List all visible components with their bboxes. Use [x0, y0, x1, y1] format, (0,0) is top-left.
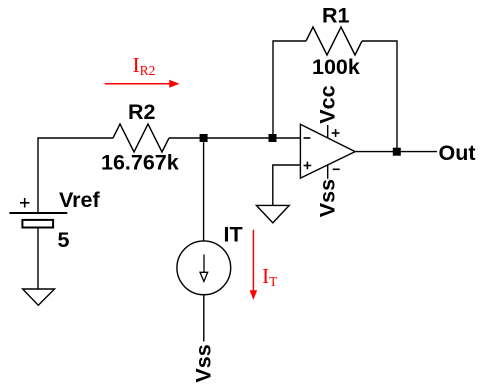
current arrow IT (red)	[250, 230, 258, 300]
node output junction	[393, 148, 401, 156]
op-amp Vss pin stub	[327, 165, 329, 179]
op-amp Vcc pin stub	[327, 125, 329, 139]
wire node to current source	[203, 142, 205, 242]
op-amp U1	[300, 124, 355, 178]
svg-text:IT: IT	[262, 264, 278, 289]
op-amp inverting input mark	[304, 137, 311, 139]
ground (Vref)	[23, 289, 55, 305]
svg-text:5: 5	[58, 228, 70, 252]
ground (op-amp non-inverting input)	[256, 205, 289, 222]
node junction R2/IT	[200, 134, 208, 142]
wire output	[355, 151, 437, 153]
op-amp Vss minus mark	[333, 168, 340, 170]
svg-text:Vref: Vref	[59, 188, 100, 212]
wire Vref to ground	[37, 228, 39, 290]
wire feedback right	[362, 41, 397, 152]
wire main (Vref corner to R2)	[38, 138, 113, 213]
voltage source Vref	[9, 198, 67, 228]
svg-text:100k: 100k	[312, 55, 360, 79]
wire non-inverting input to ground	[273, 165, 301, 205]
op-amp non-inverting input mark	[304, 162, 312, 170]
svg-text:16.767k: 16.767k	[101, 151, 179, 175]
svg-text:Vss: Vss	[315, 179, 339, 217]
svg-text:IT: IT	[224, 223, 243, 247]
svg-text:IR2: IR2	[133, 53, 156, 78]
op-amp Vcc plus mark	[332, 129, 340, 137]
svg-text:Out: Out	[439, 141, 476, 165]
wire current source to Vss	[203, 295, 205, 342]
svg-text:Vss: Vss	[192, 344, 216, 382]
current source IT	[177, 241, 231, 295]
svg-text:R1: R1	[322, 3, 350, 27]
wire feedback left	[273, 41, 306, 138]
resistor R2	[113, 124, 169, 152]
node junction feedback/inverting input	[269, 134, 277, 142]
current arrow IR2 (red)	[105, 80, 180, 88]
svg-text:R2: R2	[128, 100, 156, 124]
wire main (R2 to op-amp inverting input)	[169, 137, 300, 139]
resistor R1	[306, 27, 362, 55]
svg-text:Vcc: Vcc	[315, 85, 339, 123]
